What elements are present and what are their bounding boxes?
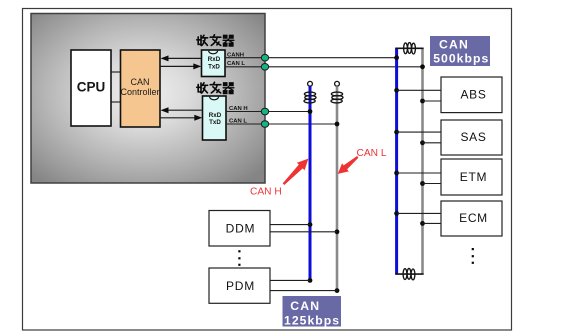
svg-text:PDM: PDM bbox=[226, 279, 255, 293]
wire TxD top with arrow to transceiver bbox=[160, 65, 195, 67]
svg-text:SAS: SAS bbox=[460, 130, 486, 144]
125k bus terminator circle H bbox=[308, 81, 313, 86]
wire CANL top to 500k bus bbox=[225, 66, 423, 68]
wire DDM L bbox=[270, 231, 337, 233]
ellipsis DDM-PDM bbox=[238, 250, 240, 266]
svg-text:CAN: CAN bbox=[439, 38, 469, 52]
svg-text:CAN: CAN bbox=[130, 77, 149, 87]
wire ABS H bbox=[397, 89, 441, 91]
node ECM bbox=[441, 201, 502, 236]
wire DDM H bbox=[270, 224, 310, 226]
svg-text:CAN H: CAN H bbox=[250, 186, 282, 197]
500k bus CAN L gray line bbox=[421, 48, 424, 274]
wire ABS L bbox=[423, 100, 442, 102]
svg-text:CAN H: CAN H bbox=[229, 106, 248, 112]
125k bus CAN L gray line bbox=[336, 86, 339, 290]
500k bus bottom link bbox=[395, 273, 423, 275]
svg-text:ECM: ECM bbox=[459, 211, 488, 225]
connector dot green 4 bbox=[261, 121, 268, 128]
svg-text:CPU: CPU bbox=[77, 79, 106, 94]
wire ETM H bbox=[397, 172, 441, 174]
125k bus CAN H blue line bbox=[309, 86, 312, 280]
svg-text:500kbps: 500kbps bbox=[433, 51, 489, 65]
red arrow to CAN L line bbox=[338, 156, 359, 174]
svg-text:ABS: ABS bbox=[460, 88, 486, 102]
node ABS bbox=[441, 77, 502, 113]
wire RxD bottom with arrow to controller bbox=[167, 109, 203, 111]
terminator coil on 125k H bbox=[304, 92, 316, 103]
svg-text:RxD: RxD bbox=[209, 112, 222, 119]
CPU U1 bbox=[71, 50, 111, 126]
svg-text:CAN L: CAN L bbox=[227, 61, 245, 67]
svg-text:TxD: TxD bbox=[209, 119, 221, 126]
connector dot green 3 bbox=[261, 108, 268, 115]
svg-text:RxD: RxD bbox=[208, 56, 221, 63]
terminator resistor bottom bbox=[403, 268, 415, 279]
connector dot green 2 bbox=[261, 64, 268, 71]
wire CPU-controller 2 bbox=[111, 101, 121, 103]
500k bus top link bbox=[395, 47, 423, 49]
connector dot green 1 bbox=[261, 54, 268, 61]
transceiver bottom bbox=[203, 96, 227, 140]
node SAS bbox=[441, 120, 502, 155]
wire PDM L bbox=[270, 290, 337, 292]
wire CAN L bottom to 125k bus bbox=[226, 123, 337, 125]
wire CAN H bottom to 125k bus bbox=[226, 111, 310, 113]
wire ETM L bbox=[423, 183, 442, 185]
label 收发器 top bbox=[197, 35, 234, 46]
red arrow to CAN H line bbox=[283, 159, 309, 185]
junction dots on 125k bus bbox=[308, 109, 340, 293]
wire SAS H bbox=[397, 131, 441, 133]
ECU gray module box bbox=[31, 14, 265, 184]
svg-text:CAN L: CAN L bbox=[357, 148, 387, 159]
125k bus terminator circle L bbox=[335, 81, 340, 86]
ellipsis below ECM bbox=[472, 248, 474, 264]
wire CPU-controller 1 bbox=[111, 71, 121, 73]
wire TxD bottom with arrow to transceiver bbox=[160, 117, 196, 119]
node PDM bbox=[209, 268, 270, 303]
junction dots on 500k H bbox=[394, 55, 399, 216]
wire RxD top with arrow to controller bbox=[167, 57, 202, 59]
transceiver top bbox=[202, 50, 226, 77]
wire SAS L bbox=[423, 142, 442, 144]
svg-text:125kbps: 125kbps bbox=[284, 313, 340, 327]
wire PDM H bbox=[270, 279, 310, 281]
label CAN 500kbps bbox=[430, 36, 490, 66]
svg-text:CAN: CAN bbox=[290, 299, 320, 313]
node ETM bbox=[441, 159, 502, 195]
wire ECM L bbox=[423, 222, 442, 224]
junction dots on 500k L bbox=[420, 64, 425, 225]
svg-text:Controller: Controller bbox=[120, 87, 159, 97]
label 收发器 bottom bbox=[197, 82, 234, 93]
500k bus CAN H blue line bbox=[395, 48, 398, 274]
terminator resistor top bbox=[404, 43, 416, 54]
label CAN 125kbps bbox=[283, 296, 342, 327]
node DDM bbox=[209, 211, 270, 247]
CAN Controller bbox=[121, 50, 161, 127]
wire ECM H bbox=[397, 212, 441, 214]
terminator coil on 125k L bbox=[331, 92, 343, 103]
svg-text:TxD: TxD bbox=[208, 63, 220, 70]
svg-text:DDM: DDM bbox=[226, 221, 256, 235]
svg-text:ETM: ETM bbox=[460, 170, 487, 184]
svg-text:CAN L: CAN L bbox=[229, 118, 247, 124]
wire CANH top to 500k bus bbox=[225, 57, 397, 59]
